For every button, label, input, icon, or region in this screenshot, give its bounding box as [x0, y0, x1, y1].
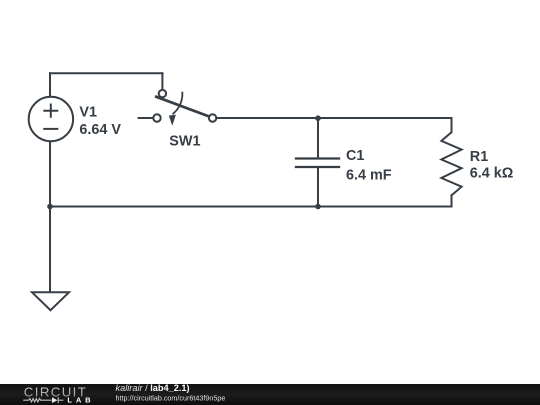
footer bar [0, 384, 540, 405]
CircuitLab logo resistor-diode symbol [23, 397, 63, 403]
capacitor C1 [295, 159, 340, 168]
wire down to switch common [161, 73, 163, 90]
ground [32, 292, 69, 310]
wire rail to ground [49, 207, 51, 293]
wire switch left throw stub [139, 117, 154, 119]
wire R1 top lead [451, 118, 453, 132]
svg-text:LAB: LAB [67, 396, 91, 405]
wire V1 top to corner [49, 73, 51, 97]
wire bottom rail [50, 206, 452, 208]
wire C1 bottom lead [317, 168, 319, 207]
junction dot top C1 node [315, 115, 321, 121]
wire C1 top lead [317, 118, 319, 158]
svg-text:C1: C1 [346, 148, 364, 164]
wire top horizontal [50, 72, 162, 74]
svg-text:kalirair / lab4_2.1): kalirair / lab4_2.1) [116, 383, 190, 393]
wire V1 bottom to rail [49, 141, 51, 206]
switch SW1 [153, 90, 216, 126]
junction dot V1 bottom node [47, 204, 53, 210]
svg-text:SW1: SW1 [169, 133, 200, 149]
wire switch right terminal to R1 top [216, 117, 451, 119]
svg-text:6.4 kΩ: 6.4 kΩ [470, 165, 514, 181]
junction dot bottom C1 node [315, 204, 321, 210]
svg-text:http://circuitlab.com/cur6t43f: http://circuitlab.com/cur6t43f9n5pe [116, 393, 226, 402]
svg-text:6.64 V: 6.64 V [79, 122, 121, 138]
wire R1 bottom lead [451, 195, 453, 206]
svg-text:V1: V1 [79, 104, 97, 120]
svg-text:6.4 mF: 6.4 mF [346, 168, 392, 184]
voltage source V1 [29, 97, 73, 141]
svg-text:R1: R1 [470, 149, 488, 165]
resistor R1 [441, 132, 461, 195]
